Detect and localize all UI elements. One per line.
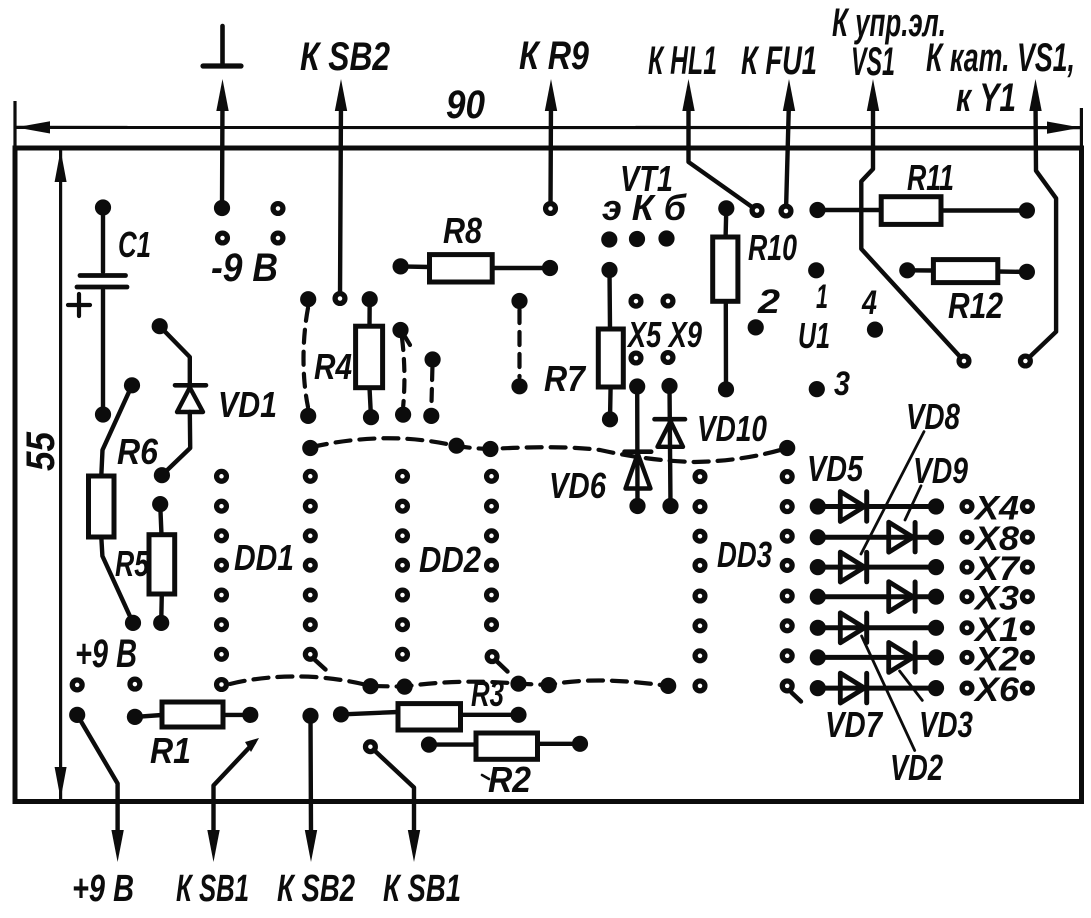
node K R9 pad [546,204,556,214]
resistor R6 [101,385,132,476]
diode VD2 row (X1) [818,625,936,630]
resistor R7 [607,270,612,329]
svg-text:-9 В: -9 В [211,246,278,290]
svg-text:э К б: э К б [602,187,688,228]
diode VD5 row (X4) [818,504,936,509]
lower curve pads [362,678,378,694]
node K FU1 pad [781,206,791,216]
U1 pin 1 pad [808,262,824,278]
IC DD1 right pad column [302,440,318,456]
VD2 leader [862,636,915,751]
VD10 pads [661,378,677,394]
resistor R12 [907,268,933,273]
resistor R10 [723,208,728,237]
svg-text:2: 2 [757,283,780,321]
wire +9V bottom [77,715,117,834]
svg-text:R3: R3 [471,673,504,714]
wire K SB1 bottom 2 [370,747,414,834]
svg-text:R8: R8 [443,210,482,251]
wire K SB1 bottom [214,743,255,835]
U1 pin 4 pad [867,322,883,338]
J3 pads [425,351,441,367]
svg-text:C1: C1 [118,224,151,265]
VD8 leader [861,432,924,554]
resistor R5 [160,504,161,535]
node K SB2 pad [335,294,345,304]
svg-text:К SB2: К SB2 [300,35,390,79]
R3 pads [333,706,349,722]
VD6 pads [629,378,645,394]
resistor R4 [367,299,372,326]
svg-text:+9 В: +9 В [72,868,134,910]
C1 pads [95,199,111,215]
svg-text:VD6: VD6 [549,465,607,506]
connector Х4 pads [962,502,972,512]
svg-text:VD10: VD10 [697,408,767,449]
U1 pin 2 pad [748,319,764,335]
resistor R8 [401,264,430,269]
node GND pad [214,200,230,216]
svg-text:К R9: К R9 [519,34,590,78]
IC DD2 right pad column [482,441,498,457]
svg-text:Х5 Х9: Х5 Х9 [626,314,702,355]
resistor R11 [818,208,882,212]
diode VD9 row (X8) [818,535,936,540]
diode VD3 row (X2) [818,655,936,660]
svg-text:Х6: Х6 [973,671,1020,709]
svg-text:3: 3 [834,365,850,403]
C1 plus sign [68,303,90,307]
node +9V pad [69,707,85,723]
svg-text:VS1: VS1 [851,40,895,84]
svg-text:4: 4 [861,284,877,322]
svg-text:1: 1 [816,278,828,316]
IC DD3 right pad column [779,440,795,456]
node K HL1 pad [752,206,762,216]
svg-text:К SB1: К SB1 [176,868,249,910]
IC DD3 left pad column [695,472,705,482]
wire K SB2 top [340,100,341,299]
ground symbol [220,26,225,66]
svg-text:DD1: DD1 [234,537,294,578]
svg-text:К кат. VS1,: К кат. VS1, [926,36,1075,80]
wire K kat. VS1 k Y1 [1025,100,1056,361]
diode VD7 row (X6) [818,686,936,691]
IC DD1 left pad column [217,471,227,481]
svg-text:R2: R2 [488,759,531,800]
svg-text:R7: R7 [544,358,587,399]
svg-text:VD1: VD1 [218,384,277,425]
svg-text:R1: R1 [150,730,191,771]
U1 pin 3 pad [809,381,825,397]
dimension 90 line [16,126,1081,129]
J2 pads [392,322,408,338]
diode VD8 row (X7) [818,565,936,570]
R5 pads [152,496,168,512]
svg-text:VD2: VD2 [890,747,943,788]
svg-text:VD5: VD5 [807,448,864,489]
VD9 leader [905,486,921,520]
svg-text:К HL1: К HL1 [648,39,717,83]
wire K FU1 [786,100,789,211]
connector Х8 pads [962,532,972,542]
connector Х3 pads [962,592,972,602]
jumper wire J3 [431,368,432,407]
R7 pads [601,262,617,278]
diode VD1 [160,326,190,385]
resistor R3 [341,712,398,714]
svg-text:DD3: DD3 [717,534,772,575]
svg-text:R11: R11 [907,157,954,198]
R12 pads [899,262,915,278]
connector Х7 pads [962,562,972,572]
R8 pads [393,258,409,274]
svg-text:VD8: VD8 [906,396,960,437]
svg-text:DD2: DD2 [419,539,481,580]
jumper dashed curve upper [312,438,787,462]
resistor R2 [429,742,476,746]
wire K SB2 bottom [308,716,313,834]
jumper wire J2 [402,338,404,406]
node kat VS1 pad [1021,356,1031,366]
transistor VT1 pads [601,231,617,247]
svg-text:55: 55 [19,431,63,471]
wire K R9 [548,100,553,209]
upper curve pads [448,438,464,454]
svg-text:R10: R10 [748,227,797,268]
R10 pads [718,200,734,216]
svg-text:90: 90 [446,83,485,127]
svg-text:R12: R12 [948,285,1003,326]
node -9V open pads [273,204,283,214]
dimension 55 line [59,150,62,799]
VD3 leader [900,671,923,700]
node +9V open pads [72,680,82,690]
node X5 X9 top pads [631,296,641,306]
capacitor C1 [101,214,105,272]
board outline [15,148,1082,802]
R6 pads [124,377,140,393]
svg-text:К FU1: К FU1 [741,39,817,83]
svg-text:К SB2: К SB2 [277,868,355,910]
connector Х6 pads [962,683,972,693]
diode diode row X3 [818,594,936,599]
svg-text:VD3: VD3 [919,704,973,745]
R4 pads [362,291,378,307]
jumper wire J4 [517,310,521,377]
J4 pads [511,293,527,309]
node K SB1 pad 2 [366,742,376,752]
IC DD2 left pad column [398,471,408,481]
jumper dashed curve lower [230,676,668,686]
svg-text:+9 В: +9 В [75,632,137,676]
svg-text:R5: R5 [115,543,150,584]
node X5 X9 bottom pads [631,353,641,363]
R2 pads [421,737,437,753]
VD1 pads [152,318,168,334]
wire K upr.el. VS1 [861,100,964,361]
node upr VS1 pad [959,356,969,366]
svg-text:К SB1: К SB1 [383,868,461,910]
svg-text:к Y1: к Y1 [956,76,1016,120]
node K SB2 bottom pad [302,708,318,724]
svg-text:U1: U1 [798,315,830,356]
svg-text:R6: R6 [117,431,159,472]
J1 pads [300,291,316,307]
svg-text:VD7: VD7 [825,704,884,745]
R11 pads [809,202,825,218]
connector Х2 pads [962,653,972,663]
jumper wire J1 [304,308,309,407]
ground wire [220,100,225,208]
resistor R1 [135,715,162,717]
wire K HL1 [689,100,758,211]
diode VD6 [635,387,640,507]
diode VD10 [670,386,671,506]
R1 pads [127,709,143,725]
connector Х1 pads [962,623,972,633]
svg-text:R4: R4 [314,346,352,387]
